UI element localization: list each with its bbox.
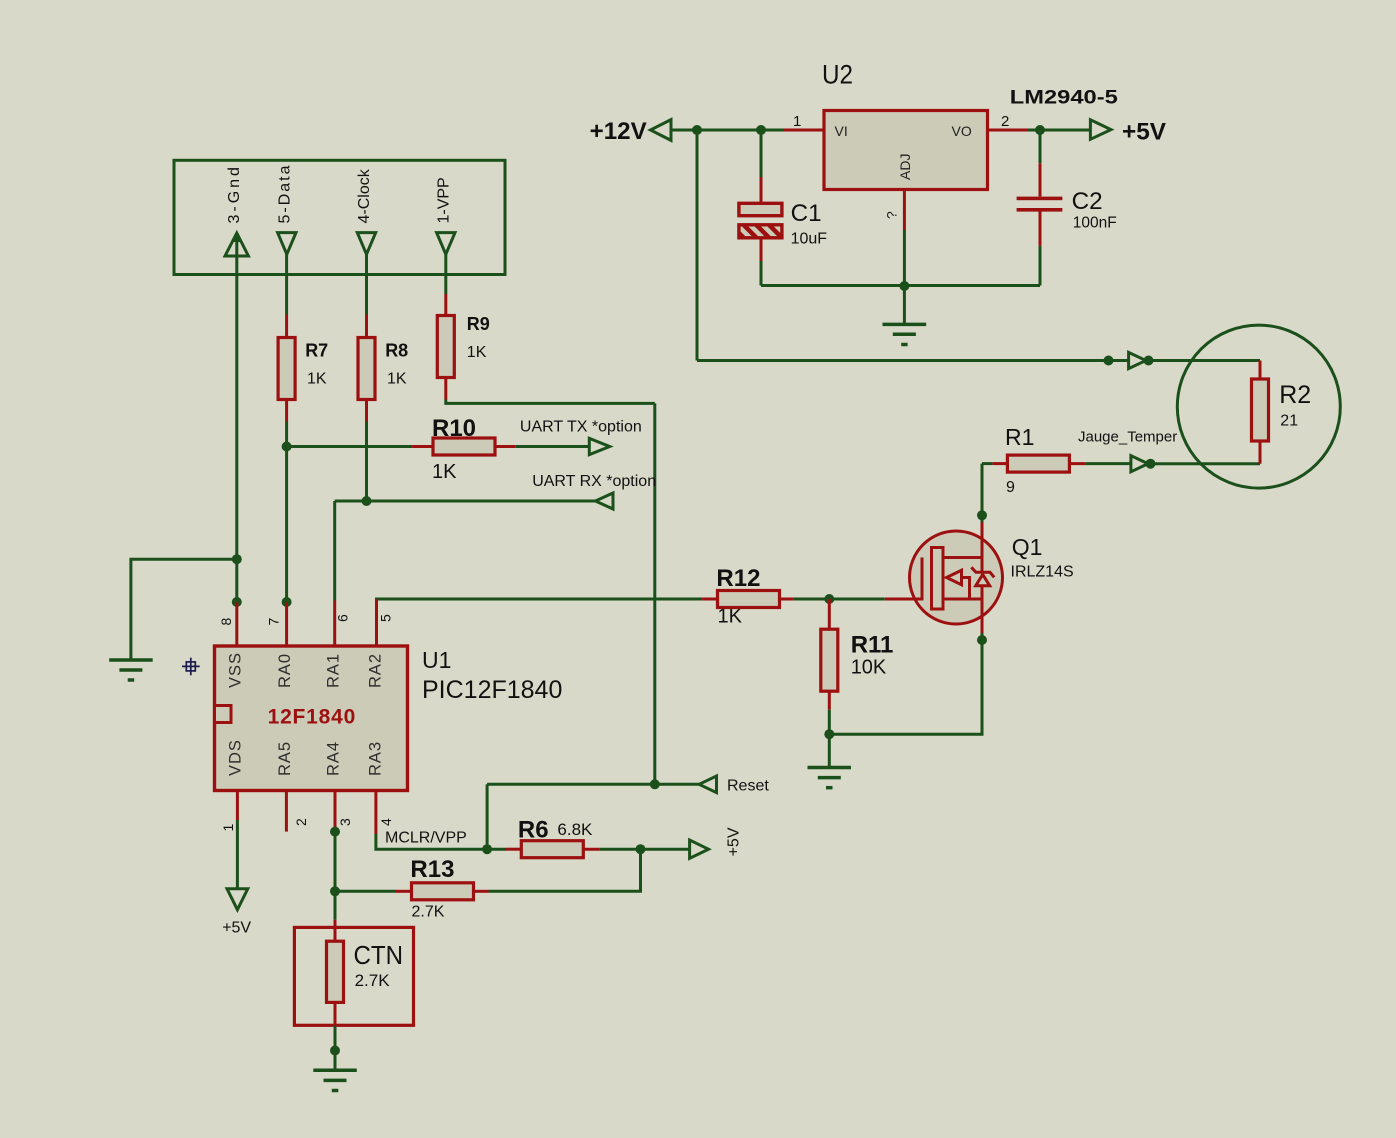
- svg-text:+12V: +12V: [590, 118, 647, 145]
- svg-text:+5V: +5V: [726, 827, 743, 856]
- junction MCLR row / reset drop: [482, 844, 492, 854]
- svg-text:+5V: +5V: [222, 920, 251, 937]
- wire lamp top into circle: [1149, 359, 1261, 362]
- wire lamp top row: [697, 359, 1129, 362]
- wire pin 1 to +5V terminal: [236, 820, 239, 889]
- wire reset row: [487, 783, 699, 786]
- lamp R2 circle: [1177, 325, 1340, 488]
- svg-text:UART TX *option: UART TX *option: [520, 419, 642, 436]
- svg-text:VO: VO: [952, 123, 972, 139]
- ground symbol (regulator): [883, 286, 927, 345]
- junction CTN ground joint: [330, 1046, 340, 1056]
- bus entry arrow (lamp bottom): [1131, 456, 1148, 472]
- wire pin 4 to R6 (MCLR row): [376, 834, 506, 849]
- wire ground rail under regulator: [761, 284, 1040, 287]
- junction Q1 drain: [977, 510, 987, 520]
- svg-text:9: 9: [1006, 479, 1015, 496]
- wire 3-Gnd down to U1 VSS: [235, 237, 238, 602]
- wire lamp bottom into circle: [1151, 462, 1261, 465]
- wire VSS branch to left ground: [131, 559, 237, 660]
- resistor R11: [821, 599, 838, 710]
- capacitor C1 (polarized): [739, 177, 782, 261]
- junction pin3 / R13: [330, 886, 340, 896]
- wire VO junction down to C2: [1039, 130, 1042, 163]
- svg-text:C1: C1: [791, 200, 822, 227]
- thermistor CTN box: [294, 927, 413, 1025]
- wire source return to Q1: [829, 633, 982, 734]
- U2 pin VO stub: [988, 129, 1028, 132]
- power terminal +5V (MCLR pullup): [690, 827, 743, 858]
- IC U1 body 12F1840: [215, 646, 408, 791]
- svg-text:R1: R1: [1005, 424, 1034, 450]
- U1 pin 1 stub: [236, 791, 239, 821]
- svg-text:RA5: RA5: [276, 741, 294, 776]
- svg-text:1K: 1K: [307, 371, 327, 388]
- resistor R2 element: [1252, 361, 1269, 464]
- ground symbol (left of U1): [109, 660, 153, 680]
- U1 pin 2 stub (n.c.): [285, 791, 288, 832]
- U1 pin 7 stub: [285, 602, 288, 646]
- transistor Q1 (IRLZ14S MOSFET): [885, 523, 1003, 634]
- svg-text:6.8K: 6.8K: [557, 820, 593, 839]
- svg-text:RA2: RA2: [367, 653, 385, 688]
- svg-text:R2: R2: [1279, 381, 1311, 409]
- svg-text:R8: R8: [385, 341, 408, 361]
- svg-text:1-VPP: 1-VPP: [435, 177, 452, 223]
- wire +12V rail down to C1: [760, 130, 763, 177]
- svg-text:VSS: VSS: [227, 652, 245, 688]
- junction lamp top row: [1104, 356, 1114, 366]
- svg-text:C2: C2: [1072, 188, 1103, 215]
- wire RX row: [335, 500, 596, 503]
- svg-text:Q1: Q1: [1012, 534, 1043, 560]
- junction pin 8 wire joint: [232, 597, 242, 607]
- svg-text:R13: R13: [410, 856, 454, 883]
- U1 pin 6 stub: [333, 601, 336, 647]
- wire RA0 node to R10: [287, 445, 413, 448]
- svg-text:R12: R12: [716, 565, 760, 592]
- wire from +12V rail down to lamp row: [696, 130, 699, 361]
- wire pin3 node to R13: [335, 890, 396, 893]
- wire R10 to TX terminal: [516, 445, 590, 448]
- svg-text:ADJ: ADJ: [897, 154, 913, 180]
- svg-text:CTN: CTN: [354, 940, 404, 970]
- junction ADJ / ground rail: [899, 281, 909, 291]
- wire 5-Data down to R7: [285, 254, 288, 314]
- resistor R8: [358, 315, 375, 422]
- resistor R7: [278, 315, 295, 422]
- svg-text:2: 2: [1001, 113, 1009, 130]
- svg-text:3: 3: [337, 818, 353, 826]
- svg-text:U1: U1: [422, 647, 451, 673]
- power terminal +5V (pin 1): [222, 889, 251, 937]
- svg-text:1K: 1K: [432, 461, 457, 483]
- U1 pin 4 stub: [374, 791, 377, 835]
- svg-text:3-Gnd: 3-Gnd: [226, 164, 243, 223]
- wire R6 to +5V terminal: [599, 848, 689, 851]
- capacitor C2: [1017, 163, 1063, 246]
- wire pin 3 down to CTN: [334, 832, 337, 920]
- svg-text:R7: R7: [305, 341, 328, 361]
- wire RA2 to R12 row: [377, 599, 703, 601]
- svg-text:1K: 1K: [467, 344, 487, 361]
- junction R8 / RX row: [362, 496, 372, 506]
- svg-text:RA0: RA0: [276, 653, 294, 688]
- svg-text:IRLZ14S: IRLZ14S: [1011, 564, 1074, 581]
- wire Q1 drain corner to R1: [982, 462, 992, 465]
- U2 pin ADJ stub: [903, 190, 906, 231]
- resistor R12: [702, 591, 793, 608]
- svg-text:1: 1: [220, 824, 236, 832]
- terminal UART RX arrow: [595, 493, 613, 509]
- U2 pin VI stub: [784, 129, 824, 132]
- svg-text:R9: R9: [467, 314, 490, 334]
- junction R12 row / R11: [824, 594, 834, 604]
- wire R7 down to U1 RA0: [285, 422, 288, 603]
- wire 4-Clock down to R8: [365, 254, 368, 314]
- junction VO / C2 branch: [1035, 125, 1045, 135]
- thermistor CTN element: [327, 920, 344, 1026]
- svg-text:2.7K: 2.7K: [412, 903, 445, 920]
- wire R1 to lamp arrow: [1086, 462, 1131, 465]
- svg-text:RA1: RA1: [325, 653, 343, 688]
- svg-text:RA3: RA3: [367, 741, 385, 776]
- U1 pin 3 stub: [334, 791, 337, 832]
- svg-text:?: ?: [884, 211, 900, 219]
- power terminal +12V: [590, 118, 671, 145]
- wire CTN to ground: [334, 1026, 337, 1051]
- svg-text:4-Clock: 4-Clock: [356, 168, 373, 223]
- svg-text:1K: 1K: [387, 371, 407, 388]
- resistor R10: [412, 438, 516, 455]
- terminal 1-VPP: [435, 177, 455, 254]
- svg-text:PIC12F1840: PIC12F1840: [422, 676, 562, 704]
- regulator U2 body: [824, 111, 988, 190]
- wire R12 to Q1 gate: [793, 598, 884, 601]
- wire +12V rail: [671, 129, 784, 132]
- junction +12V / C1 branch: [756, 125, 766, 135]
- svg-text:5: 5: [378, 614, 394, 622]
- svg-text:Reset: Reset: [727, 778, 769, 795]
- wire R11 to ground node: [828, 710, 831, 734]
- svg-text:12F1840: 12F1840: [268, 706, 357, 729]
- resistor R13: [396, 883, 489, 900]
- svg-text:6: 6: [335, 614, 351, 622]
- junction VSS column / ground branch: [232, 554, 242, 564]
- resistor R1: [992, 455, 1085, 472]
- junction lamp top entry: [1144, 356, 1154, 366]
- svg-text:8: 8: [218, 618, 234, 626]
- junction pin 7 wire joint: [282, 597, 292, 607]
- wire R8 down to RX node: [365, 422, 368, 502]
- svg-text:LM2940-5: LM2940-5: [1010, 88, 1119, 109]
- svg-text:7: 7: [265, 618, 281, 626]
- junction pin 3 wire joint: [330, 827, 340, 837]
- junction reset row / R9 column: [650, 779, 660, 789]
- power terminal +5V: [1090, 119, 1166, 146]
- svg-text:RA4: RA4: [325, 741, 343, 776]
- junction R7 / UART TX row: [282, 442, 292, 452]
- wire VO to +5V: [1027, 129, 1090, 132]
- svg-text:10uF: 10uF: [791, 231, 828, 248]
- terminal 5-Data: [276, 163, 296, 254]
- junction lamp bottom entry: [1146, 459, 1156, 469]
- wire 1-VPP down to R9: [444, 254, 447, 294]
- svg-text:21: 21: [1280, 413, 1298, 430]
- wire ADJ down to ground rail: [903, 230, 906, 286]
- wire reset drop: [486, 784, 489, 849]
- origin marker: [182, 658, 200, 676]
- junction R6 / R13 riser: [636, 844, 646, 854]
- U1 pin 5 stub: [375, 599, 378, 646]
- ground symbol (R11): [808, 734, 852, 788]
- svg-text:R11: R11: [851, 632, 894, 659]
- wire R1 down to Q1 drain: [981, 464, 984, 523]
- ground symbol (CTN): [313, 1051, 357, 1091]
- svg-text:4: 4: [378, 818, 394, 826]
- svg-text:1: 1: [793, 113, 801, 130]
- svg-text:UART RX *option: UART RX *option: [532, 473, 656, 490]
- wire R13 up to +5V node: [489, 849, 641, 891]
- terminal 4-Clock: [356, 168, 376, 254]
- svg-text:10K: 10K: [851, 657, 887, 679]
- U1 pin 8 stub: [235, 602, 238, 646]
- wire reset column vertical: [653, 403, 656, 784]
- resistor R6: [506, 841, 599, 858]
- svg-text:VDS: VDS: [227, 739, 245, 776]
- svg-text:MCLR/VPP: MCLR/VPP: [385, 830, 467, 847]
- terminal Reset arrow: [699, 776, 716, 793]
- svg-text:VI: VI: [835, 123, 848, 139]
- svg-text:Jauge_Temper: Jauge_Temper: [1078, 429, 1177, 446]
- svg-text:2.7K: 2.7K: [355, 971, 391, 990]
- junction Q1 source: [977, 635, 987, 645]
- svg-text:+5V: +5V: [1122, 119, 1166, 146]
- bus entry arrow (lamp top): [1129, 352, 1146, 368]
- svg-text:2: 2: [293, 818, 309, 826]
- wire C1 to ground rail: [760, 261, 763, 286]
- ICSP connector box: [174, 160, 505, 274]
- svg-text:U2: U2: [822, 60, 853, 90]
- resistor R9: [437, 294, 454, 400]
- terminal UART TX arrow: [589, 438, 609, 454]
- svg-text:100nF: 100nF: [1073, 215, 1117, 232]
- svg-text:5-Data: 5-Data: [276, 163, 293, 223]
- wire R9 down and right to reset column: [446, 400, 655, 404]
- terminal 3-Gnd: [225, 164, 248, 256]
- wire C2 to ground rail: [1039, 246, 1042, 286]
- junction +12V / down-feed: [692, 125, 702, 135]
- wire RX row down to U1 RA1: [333, 501, 336, 601]
- junction R11 / source return: [824, 729, 834, 739]
